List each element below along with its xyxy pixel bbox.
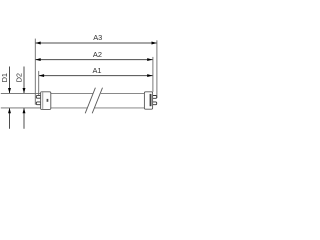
right end cap G13	[144, 92, 152, 109]
extension line tube bottom (D1/D2)	[1, 107, 41, 109]
svg-text:D1: D1	[0, 73, 9, 82]
dimension line D2 lower	[23, 108, 25, 129]
svg-text:A2: A2	[93, 50, 102, 59]
arrowhead D1 top	[8, 88, 11, 93]
dimension line D2 upper	[23, 67, 25, 94]
tube glass bottom edge right segment	[94, 107, 144, 109]
tube glass top edge left segment	[51, 92, 93, 94]
arrowhead D2 bottom	[23, 108, 26, 113]
svg-text:A3: A3	[93, 33, 102, 42]
arrowhead A1 right	[147, 74, 152, 77]
arrowhead A3 left	[35, 42, 40, 45]
right pin bottom	[152, 102, 157, 105]
break mark 2	[92, 88, 102, 114]
extension line tube top (D1/D2)	[1, 92, 41, 94]
arrowhead D2 top	[23, 88, 26, 93]
left pin top	[36, 95, 41, 98]
left cap rim band	[41, 92, 43, 109]
right cap marking bar	[150, 94, 152, 106]
arrowhead D1 bottom	[8, 108, 11, 113]
break mark 1	[85, 88, 95, 114]
left end cap G13	[41, 92, 51, 110]
extension line left pin tip (A3/A2)	[34, 39, 36, 105]
left cap marking	[47, 99, 49, 102]
extension line right pin tip (A3)	[156, 40, 158, 98]
dimension line A1	[39, 75, 153, 77]
tube glass top edge right segment	[101, 92, 145, 94]
arrowhead A3 right	[152, 42, 157, 45]
arrowhead A2 right	[147, 58, 152, 61]
dimension line D1 upper	[9, 67, 11, 94]
left cap rim line	[42, 92, 44, 109]
extension line left cap face (A1)	[38, 71, 40, 96]
svg-text:A1: A1	[93, 66, 102, 75]
arrowhead A2 left	[35, 58, 40, 61]
arrowhead A1 left	[39, 74, 44, 77]
dimension line D1 lower	[9, 108, 11, 129]
dimension line A3	[35, 42, 157, 44]
extension line right cap face (A1/A2)	[152, 57, 154, 92]
right pin top	[152, 96, 157, 99]
tube glass bottom edge left segment	[51, 107, 87, 109]
left pin bottom	[36, 102, 41, 105]
dimension line A2	[35, 59, 152, 61]
svg-text:D2: D2	[15, 73, 24, 82]
